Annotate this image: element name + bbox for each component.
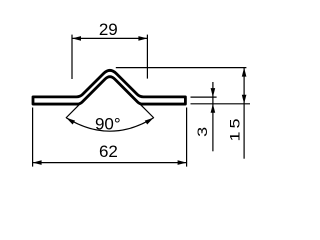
angle leg right: [141, 105, 154, 118]
dimension line 3 (vertical): [212, 82, 214, 151]
extension line 29 left: [71, 35, 73, 79]
angle arc: [66, 118, 153, 131]
extension line from apex (top reference for 15): [116, 67, 247, 69]
svg-text:90°: 90°: [95, 114, 121, 133]
extension line 62 right: [186, 108, 188, 167]
angle arrow right: [145, 116, 155, 125]
arrow 3 top (pointing down): [211, 88, 216, 97]
dimension line 62: [33, 162, 187, 164]
arrow 62 left: [33, 160, 42, 165]
svg-text:3: 3: [196, 127, 210, 137]
arrow 29 left: [72, 36, 81, 41]
arrow 15 top (pointing up): [242, 68, 247, 77]
arrow 62 right: [178, 160, 187, 165]
angle leg left (extension of inner slope): [66, 105, 79, 118]
dimension line 29: [72, 37, 147, 39]
arrow 3 bottom (pointing up): [211, 104, 216, 113]
svg-text:29: 29: [99, 20, 118, 39]
extension line top surface right (for 3): [191, 96, 217, 98]
profile outline (bent sheet cross-section): [33, 70, 185, 104]
extension line bottom surface right (for 3 and 15): [191, 103, 251, 105]
extension line 29 right: [146, 35, 148, 79]
arrow 29 right: [138, 36, 147, 41]
svg-text:15: 15: [228, 115, 242, 141]
svg-text:62: 62: [99, 142, 118, 161]
extension line 62 left: [32, 108, 34, 167]
angle arrow left: [65, 116, 75, 125]
arrow 15 bottom (pointing down): [242, 95, 247, 104]
dimension line 15 (vertical): [243, 68, 245, 159]
